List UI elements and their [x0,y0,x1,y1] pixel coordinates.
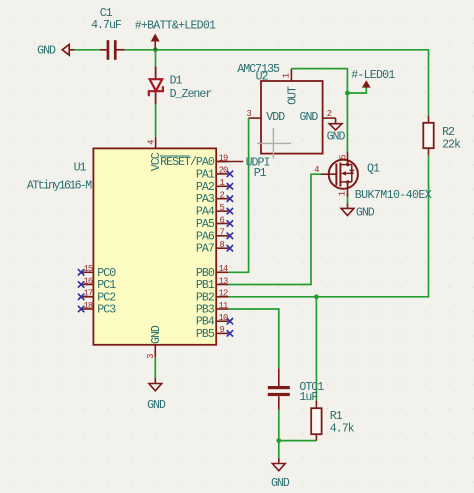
svg-text:R1: R1 [330,410,343,423]
svg-text:PB3: PB3 [196,304,215,317]
node junction LED [345,91,350,96]
resistor R2 [423,116,461,156]
svg-text:PA2: PA2 [196,181,215,194]
svg-text:PA7: PA7 [196,243,215,256]
U1 pin names left [97,267,116,317]
wire C1 to top-right corner and down to R2 [125,50,429,116]
U1 pin 3 GND [146,325,163,359]
no-connect X marks PA1-PA7 [227,171,233,252]
Q1 source pin [347,182,349,197]
svg-text:4: 4 [314,165,319,175]
svg-text:12: 12 [219,289,228,299]
svg-text:9: 9 [220,325,225,335]
ground GND top-left [62,45,74,56]
U2 pin 1 OUT [282,69,300,105]
svg-text:D_Zener: D_Zener [170,88,212,101]
symbol anchor cross U2 [257,128,291,159]
wire junction to -LED01 arrow [347,88,366,94]
svg-text:5: 5 [338,155,348,160]
svg-text:GND: GND [327,130,346,143]
svg-text:PA3: PA3 [196,193,215,206]
svg-text:PB0: PB0 [196,267,215,280]
svg-text:PC1: PC1 [97,279,116,292]
wire junction to R1 top [315,297,317,401]
svg-text:11: 11 [219,301,228,311]
connector P1 UDPI pin [216,157,269,181]
svg-text:2: 2 [220,191,225,201]
svg-text:P1: P1 [254,167,267,180]
resistor R1 [311,401,354,441]
U1 right pins PA group [216,162,228,334]
svg-text:13: 13 [219,276,228,286]
svg-text:GND: GND [356,206,375,219]
node junction PB2/R1 [314,294,319,299]
U1 pin numbers right [219,153,228,335]
no-connect X marks PC0-PC3 [78,269,84,312]
svg-text:4.7uF: 4.7uF [91,19,122,32]
ground GND at U2 pin 2 [327,118,346,143]
svg-text:#+BATT&+LED01: #+BATT&+LED01 [135,19,216,32]
Q1 drain pin [347,152,349,165]
svg-text:15: 15 [83,264,92,274]
svg-text:1: 1 [220,178,225,188]
svg-text:PB4: PB4 [196,316,215,329]
svg-text:RESET/PA0: RESET/PA0 [160,156,215,169]
svg-text:GND: GND [37,45,56,58]
IC U2 AMC7135 [237,63,322,153]
svg-text:#-LED01: #-LED01 [351,69,395,82]
U1 pin 4 VCC [146,137,163,171]
svg-text:Q1: Q1 [367,163,380,176]
capacitor C1 [91,7,124,60]
svg-text:20: 20 [219,166,228,176]
svg-text:R2: R2 [442,126,455,139]
svg-text:PB5: PB5 [196,328,215,341]
ground GND below Q1 [341,203,375,219]
wire U2 OUT to Q1 drain [291,69,347,152]
Q1 gate pin [321,173,336,175]
svg-text:22k: 22k [442,138,461,151]
svg-text:3: 3 [146,354,156,359]
wire R1 bottom to junction [279,440,317,442]
svg-text:14: 14 [219,264,228,274]
svg-text:5: 5 [220,203,225,213]
svg-text:D1: D1 [170,74,183,87]
svg-text:6: 6 [220,215,225,225]
svg-text:3: 3 [247,109,252,119]
svg-text:PA4: PA4 [196,206,215,219]
svg-text:1uF: 1uF [299,391,318,404]
svg-text:PA5: PA5 [196,218,215,231]
wire PB2 to R2 bottom [228,155,428,296]
IC U1 ATtiny1616 body [27,148,216,344]
wire junction to bottom GND [278,441,280,459]
wire top rail GND to C1 [74,49,100,51]
wire junction to D1 anode [155,50,157,67]
svg-text:18: 18 [83,301,92,311]
wire U1 GND pin to GND symbol [154,357,156,378]
svg-text:PC3: PC3 [97,304,116,317]
power label #-LED01 [351,69,395,88]
svg-text:1: 1 [338,191,348,196]
U1 pin numbers left [83,264,92,311]
svg-text:GND: GND [300,111,319,124]
svg-text:PA6: PA6 [196,230,215,243]
svg-text:7: 7 [220,228,225,238]
RESET overline [160,155,190,157]
wire OTC1 bottom to junction [278,410,280,441]
wire Q1 source to GND symbol [347,194,349,203]
ground GND bottom [271,458,290,490]
power label #+BATT&+LED01 [135,19,216,49]
svg-text:GND: GND [271,477,290,490]
svg-text:PB2: PB2 [196,291,215,304]
svg-text:2: 2 [327,109,332,119]
diode D1 D_Zener [155,67,157,104]
U2 pin 2 GND [300,109,336,124]
node junction bottom [276,438,281,443]
wire PB1 to Q1 gate [228,174,321,284]
U1 pin names right [160,156,215,341]
svg-text:PB1: PB1 [196,279,215,292]
svg-text:VDD: VDD [266,111,285,124]
svg-text:GND: GND [147,399,166,412]
svg-text:4.7k: 4.7k [330,422,355,435]
svg-text:GND: GND [150,325,163,344]
svg-text:OUT: OUT [287,86,300,105]
svg-text:BUK7M10-40EX: BUK7M10-40EX [355,189,432,202]
svg-text:8: 8 [220,240,225,250]
U2 pin 3 VDD [247,109,286,124]
svg-text:1: 1 [282,73,292,78]
svg-text:PC0: PC0 [97,267,116,280]
svg-text:10: 10 [219,313,228,323]
svg-text:16: 16 [83,276,92,286]
svg-text:U2: U2 [256,70,269,83]
no-connect X marks PB4 PB5 [227,318,233,337]
capacitor OTC1 [268,368,324,409]
svg-text:PC2: PC2 [97,291,116,304]
svg-text:U1: U1 [74,162,87,175]
transistor Q1 BUK7M10-40EX [314,152,431,202]
wire PB3 to OTC1 top [228,309,278,368]
svg-text:ATtiny1616-M: ATtiny1616-M [27,180,92,193]
wire U2 VDD down to PB0 [228,118,248,272]
svg-text:17: 17 [83,289,92,299]
wire D1 cathode to U1 VCC [155,104,157,138]
node junction top (BATT) [153,47,158,52]
ground GND below U1 [147,378,166,412]
U1 left pins PC group [81,272,93,309]
svg-text:19: 19 [219,153,228,163]
svg-text:PA1: PA1 [196,168,215,181]
svg-text:4: 4 [146,140,156,145]
